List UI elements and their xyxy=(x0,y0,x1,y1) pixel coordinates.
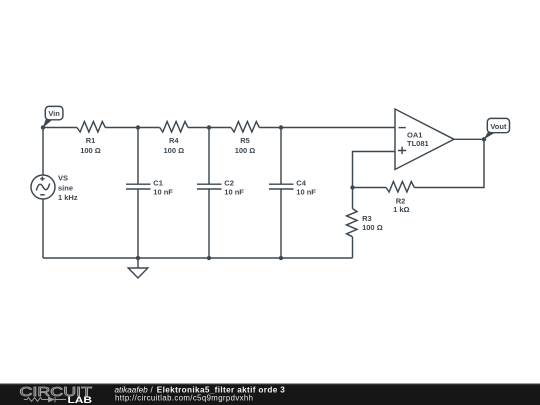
capacitor C2 xyxy=(197,184,222,189)
svg-text:100 Ω: 100 Ω xyxy=(163,146,184,155)
wire R1 to R4 xyxy=(105,127,159,129)
resistor R4 xyxy=(160,122,188,133)
wire C4 bottom branch xyxy=(280,189,282,258)
junction node C2 top xyxy=(207,125,211,129)
svg-text:R4: R4 xyxy=(169,136,179,145)
svg-text:1 kΩ: 1 kΩ xyxy=(393,205,409,214)
junction node C1 top xyxy=(136,125,140,129)
junction node Vout xyxy=(482,137,486,141)
svg-text:C4: C4 xyxy=(296,179,306,188)
VS minus sign xyxy=(40,194,45,196)
svg-text:100 Ω: 100 Ω xyxy=(362,223,383,232)
op-amp U1 triangle xyxy=(395,109,454,170)
svg-text:C1: C1 xyxy=(153,179,163,188)
wire C1 top branch xyxy=(137,128,139,185)
wire node to R3 xyxy=(352,188,354,209)
wire C4 top branch xyxy=(280,128,282,185)
VS plus sign xyxy=(40,177,44,181)
logo squiggle resistor diode xyxy=(24,397,66,403)
resistor R5 xyxy=(231,122,259,133)
svg-text:LAB: LAB xyxy=(68,395,93,405)
wire R3 to bottom rail xyxy=(352,237,354,258)
svg-text:R1: R1 xyxy=(86,136,96,145)
svg-text:Vin: Vin xyxy=(48,109,60,118)
resistor R2 xyxy=(386,182,414,193)
footer bar xyxy=(0,384,540,405)
svg-text:C2: C2 xyxy=(224,179,234,188)
svg-text:R2: R2 xyxy=(396,197,406,206)
wire bottom rail xyxy=(43,257,353,259)
flag Vin box xyxy=(45,106,63,119)
junction node ground xyxy=(136,256,140,260)
wire C2 bottom branch xyxy=(208,189,210,258)
ground symbol xyxy=(128,268,148,278)
svg-text:R5: R5 xyxy=(240,136,250,145)
svg-text:R3: R3 xyxy=(362,214,372,223)
wire op-amp output xyxy=(454,138,484,140)
svg-text:10 nF: 10 nF xyxy=(153,188,173,197)
resistor R1 xyxy=(77,122,105,133)
wire R2 to output branch xyxy=(414,139,484,187)
ground stub xyxy=(137,258,139,268)
svg-text:1 kHz: 1 kHz xyxy=(58,193,78,202)
wire VS bottom branch xyxy=(42,199,44,258)
svg-text:http://circuitlab.com/c5q9mgrp: http://circuitlab.com/c5q9mgrpdvxhh xyxy=(115,393,253,402)
op-amp minus marker xyxy=(399,127,406,129)
flag Vout tail xyxy=(484,132,496,140)
svg-text:10 nF: 10 nF xyxy=(224,188,244,197)
svg-text:OA1: OA1 xyxy=(407,130,422,139)
junction node C4 bottom xyxy=(279,256,283,260)
capacitor C4 xyxy=(269,184,294,189)
svg-text:100 Ω: 100 Ω xyxy=(235,146,256,155)
wire VS top branch xyxy=(42,128,44,176)
junction node C2 bottom xyxy=(207,256,211,260)
flag Vout box xyxy=(487,118,509,132)
wire R4 to R5 xyxy=(188,127,231,129)
svg-text:10 nF: 10 nF xyxy=(296,188,316,197)
resistor R3 xyxy=(347,209,358,237)
junction node C4 top xyxy=(279,125,283,129)
svg-text:100 Ω: 100 Ω xyxy=(80,146,101,155)
wire op-amp noninverting input xyxy=(353,152,396,188)
capacitor C1 xyxy=(126,184,151,189)
svg-text:TL081: TL081 xyxy=(407,139,429,148)
svg-text:Vout: Vout xyxy=(490,122,507,131)
svg-text:VS: VS xyxy=(58,173,68,182)
wire node to R2 xyxy=(353,187,387,189)
voltage source VS circle xyxy=(31,175,55,199)
wire C1 bottom branch xyxy=(137,189,139,258)
VS sine squiggle xyxy=(36,184,49,191)
wire R5 to op-amp inverting input xyxy=(259,127,395,129)
junction node R2 R3 xyxy=(350,185,354,189)
wire C2 top branch xyxy=(208,128,210,185)
flag Vin tail xyxy=(43,119,53,128)
wire top rail Vin to R1 xyxy=(43,127,77,129)
junction node Vin xyxy=(41,125,45,129)
op-amp plus marker xyxy=(398,147,406,154)
svg-text:sine: sine xyxy=(58,184,73,193)
